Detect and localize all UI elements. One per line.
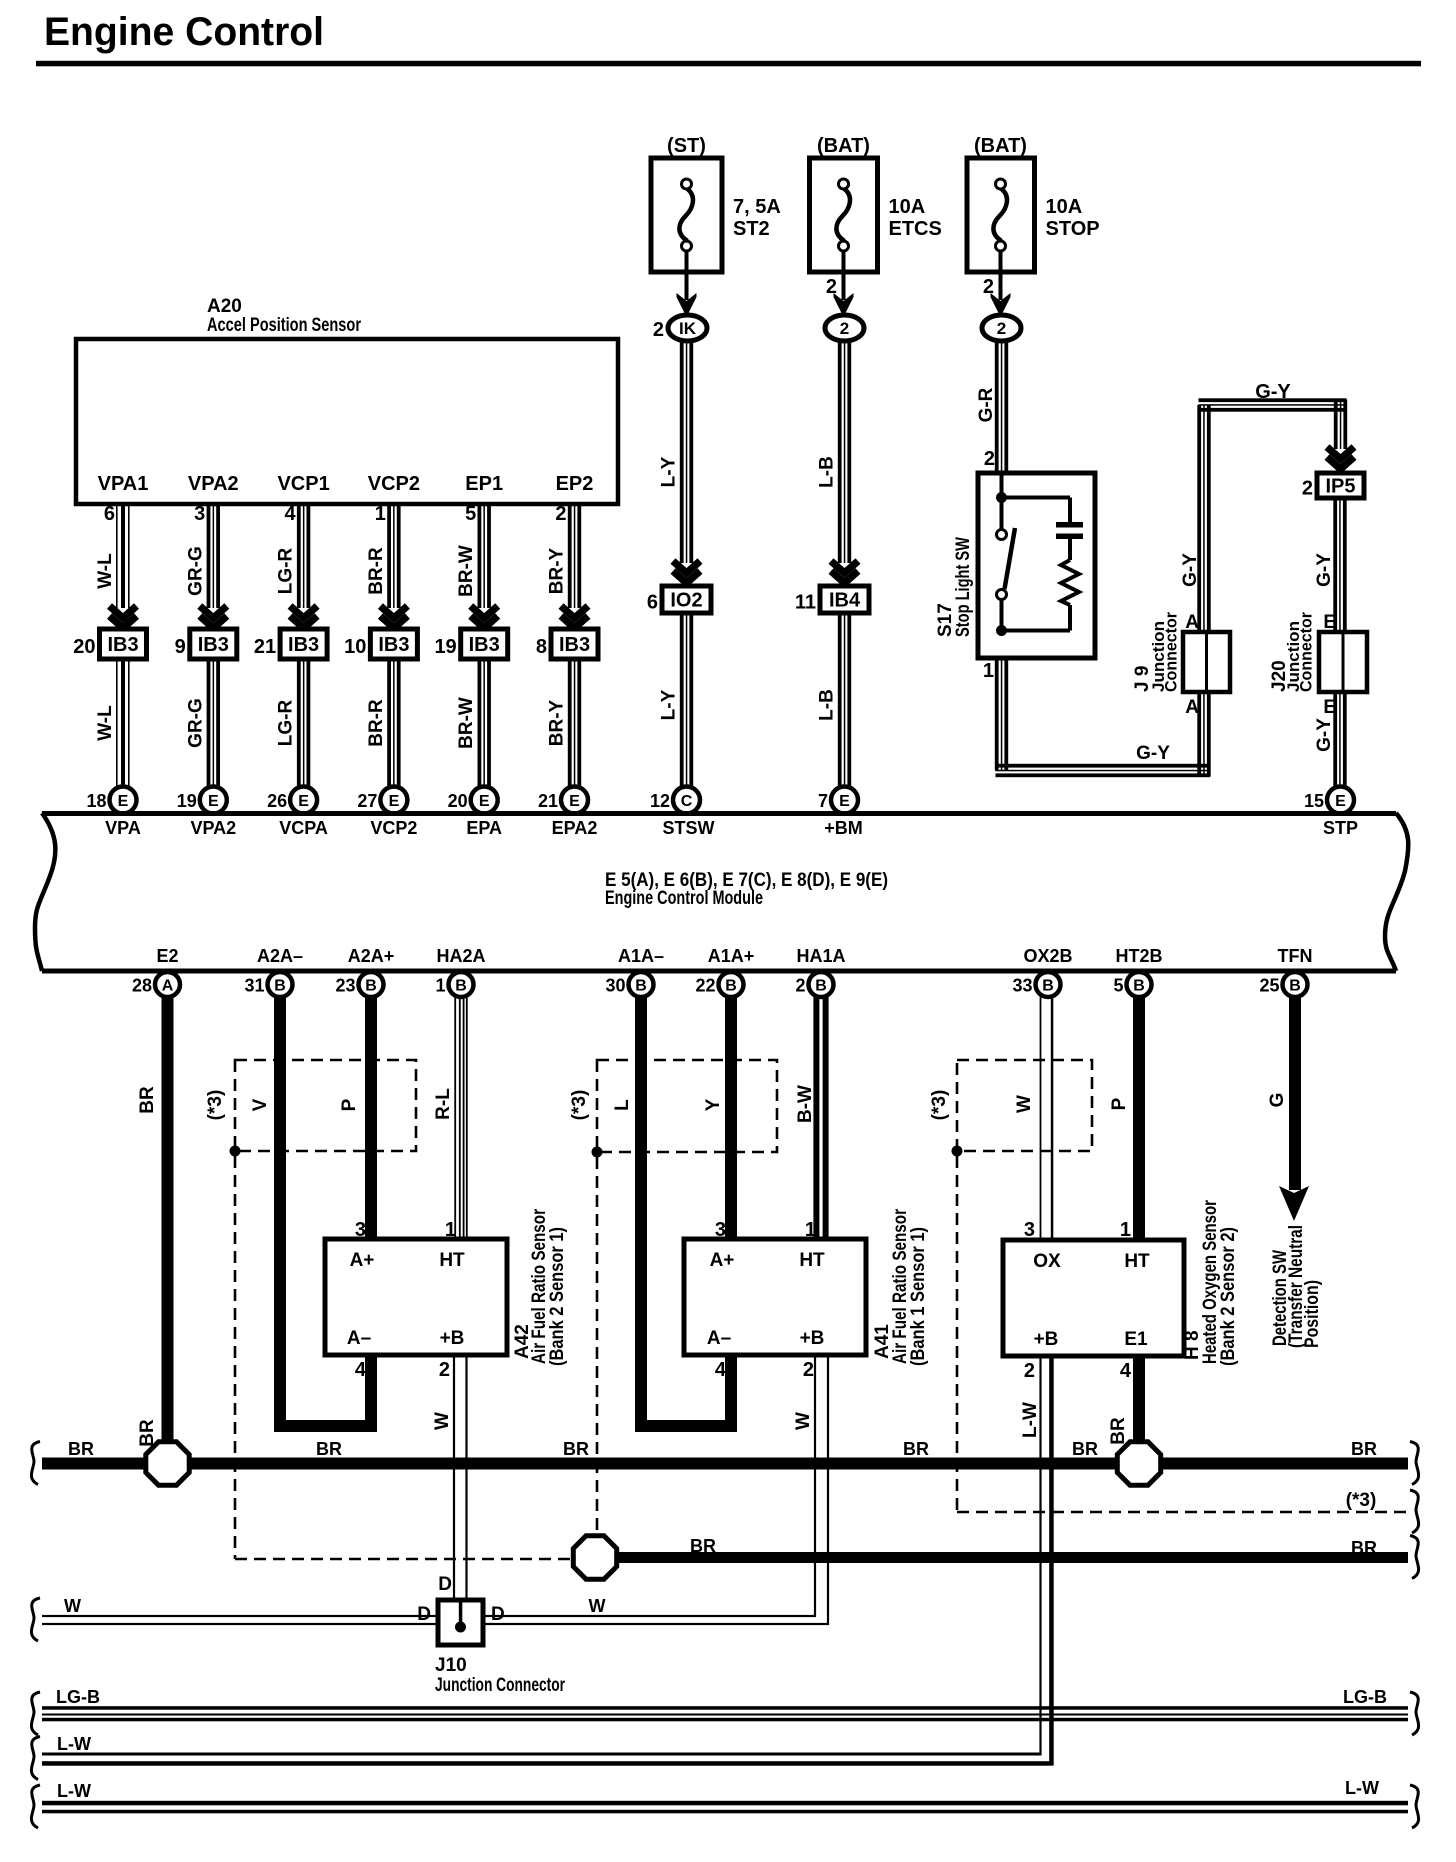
wire G-Y up into J9 bottom (1197, 692, 1201, 777)
bus LG-B (42, 1706, 1408, 1710)
connector oval 2 (ETCS) (825, 315, 864, 341)
svg-text:EPA2: EPA2 (552, 818, 598, 838)
svg-text:D: D (417, 1604, 431, 1625)
svg-text:10A: 10A (889, 196, 926, 218)
svg-text:E: E (479, 793, 490, 810)
svg-text:A–: A– (347, 1328, 371, 1349)
dashed shield box (*3) A42 (235, 1060, 416, 1151)
ECM pin 15 (E) (1327, 787, 1354, 814)
svg-text:HT: HT (1124, 1251, 1150, 1272)
svg-text:BR: BR (316, 1439, 342, 1459)
svg-text:2: 2 (1024, 1360, 1035, 1382)
svg-text:IB3: IB3 (288, 634, 319, 656)
svg-text:Y: Y (703, 1098, 724, 1111)
svg-text:A: A (162, 978, 174, 995)
connector IB3 pin 19 (461, 629, 508, 659)
svg-text:4: 4 (715, 1359, 727, 1381)
svg-text:BR: BR (690, 1536, 716, 1556)
svg-text:11: 11 (795, 592, 816, 614)
svg-text:20: 20 (73, 636, 95, 658)
wire L-Y from IO2 to ECM pin 12 (680, 613, 684, 789)
connector IB3 pin 8 (551, 629, 598, 659)
svg-text:HA1A: HA1A (796, 946, 845, 966)
svg-text:D: D (491, 1604, 505, 1625)
svg-text:W-L: W-L (95, 705, 116, 741)
svg-text:G-Y: G-Y (1314, 553, 1335, 587)
svg-text:BR: BR (137, 1086, 158, 1114)
svg-text:E: E (389, 793, 400, 810)
svg-text:B: B (1042, 978, 1054, 995)
svg-text:L-B: L-B (817, 689, 838, 721)
ECM left wavy edge (35, 813, 55, 971)
ECM pin 23 (B) A2A+ (359, 972, 384, 997)
svg-text:3: 3 (194, 503, 205, 525)
svg-text:BR: BR (903, 1439, 929, 1459)
ECM pin 28 (A) E2 (155, 972, 180, 997)
svg-text:EP2: EP2 (556, 473, 594, 495)
svg-text:HA2A: HA2A (436, 946, 485, 966)
fuse ETCS 10A (810, 158, 878, 272)
ECM pin 7 (E) (831, 787, 858, 814)
svg-text:7, 5A: 7, 5A (733, 196, 781, 218)
S17 internal lead from pin 2 (1000, 475, 1004, 497)
ECM pin 2 (B) HA1A (809, 972, 834, 997)
svg-text:C: C (681, 793, 693, 810)
svg-text:L-W: L-W (57, 1781, 91, 1801)
dashed shield box (*3) H8 (957, 1060, 1092, 1151)
ground bus BR (42, 1458, 1408, 1470)
wire L-W from H8 +B down (1039, 1356, 1041, 1755)
svg-text:BR: BR (1072, 1439, 1098, 1459)
svg-text:10A: 10A (1046, 196, 1083, 218)
wire B-W HA1A to A41 HT (813, 996, 819, 1241)
wire BR-Y from A20 EP2 to IB3 (568, 504, 572, 608)
svg-text:27: 27 (357, 791, 377, 811)
svg-text:(BAT): (BAT) (974, 135, 1027, 157)
ECM bottom edge (42, 969, 1396, 974)
switch lower lead (1000, 599, 1004, 631)
svg-text:W: W (589, 1596, 606, 1616)
svg-text:Engine Control Module: Engine Control Module (605, 888, 763, 909)
svg-text:5: 5 (1113, 976, 1123, 996)
bus L-W upper left squiggle (31, 1737, 40, 1780)
svg-text:31: 31 (244, 976, 264, 996)
svg-text:A2A+: A2A+ (348, 946, 395, 966)
ECM pin 22 (B) A1A+ (719, 972, 744, 997)
bus W left section (42, 1615, 440, 1617)
ECM pin 25 (B) TFN (1283, 972, 1308, 997)
svg-text:A+: A+ (710, 1250, 735, 1271)
dashed bus right squiggle (1410, 1490, 1419, 1533)
svg-text:B-W: B-W (795, 1085, 816, 1123)
svg-text:BR-R: BR-R (366, 699, 387, 747)
wire A1A- to A41 A- (641, 996, 731, 1426)
svg-text:B: B (635, 978, 647, 995)
bus L-W lower (42, 1801, 1408, 1806)
svg-text:E1: E1 (1124, 1329, 1148, 1350)
wire A2A+ to A42 A+ (365, 996, 377, 1241)
connector IB3 pin 9 (190, 629, 237, 659)
svg-text:(BAT): (BAT) (817, 135, 870, 157)
arrow into IB3 (VCP2) (380, 606, 407, 618)
junction connector J9 box (1183, 632, 1230, 692)
wire LG-R from A20 VCP1 to IB3 (297, 504, 301, 608)
svg-text:BR: BR (1351, 1439, 1377, 1459)
svg-text:BR: BR (1108, 1417, 1129, 1445)
svg-text:HT: HT (439, 1250, 465, 1271)
component A42 box (325, 1239, 507, 1355)
svg-text:E: E (1323, 612, 1336, 633)
capacitor in S17 (1056, 522, 1083, 528)
bus LG-B left squiggle (31, 1692, 40, 1735)
svg-text:30: 30 (605, 976, 625, 996)
svg-text:A: A (1185, 697, 1199, 718)
wire G-Y horizontal top run (1199, 398, 1347, 402)
wire BR-W from IB3 to ECM pin 20 (478, 659, 482, 789)
svg-text:21: 21 (254, 636, 276, 658)
svg-text:G-R: G-R (976, 387, 997, 422)
svg-text:23: 23 (335, 976, 355, 996)
wire G-Y from S17 pin 1 down (995, 658, 999, 771)
dashed wire from H8 shield down (956, 1156, 959, 1512)
wire R-L HA2A to A42 HT (454, 996, 456, 1241)
svg-text:L-W: L-W (1345, 1778, 1379, 1798)
svg-text:2: 2 (555, 503, 566, 525)
svg-text:A: A (1185, 612, 1199, 633)
svg-text:BR-Y: BR-Y (547, 699, 568, 746)
wire G-Y from J9 top up (1197, 405, 1201, 632)
svg-text:(*3): (*3) (205, 1090, 226, 1121)
svg-text:IB3: IB3 (198, 634, 229, 656)
svg-text:1: 1 (983, 660, 994, 682)
arrow into IB3 (VPA2) (200, 606, 227, 618)
svg-text:LG-B: LG-B (56, 1687, 100, 1707)
svg-text:12: 12 (650, 791, 670, 811)
ECM pin 30 (B) A1A- (629, 972, 654, 997)
svg-text:Junction Connector: Junction Connector (435, 1675, 565, 1696)
svg-text:5: 5 (465, 503, 476, 525)
svg-text:1: 1 (375, 503, 386, 525)
svg-text:L: L (612, 1099, 633, 1111)
bus BR right squiggle (1410, 1442, 1419, 1485)
wire W-L from IB3 to ECM pin 18 (116, 659, 118, 789)
svg-text:A20: A20 (207, 296, 242, 317)
ECM pin 1 (B) HA2A (449, 972, 474, 997)
svg-text:STSW: STSW (663, 818, 715, 838)
svg-text:Accel Position Sensor: Accel Position Sensor (207, 315, 361, 336)
svg-text:7: 7 (818, 791, 828, 811)
svg-text:HT2B: HT2B (1115, 946, 1162, 966)
svg-text:4: 4 (355, 1359, 367, 1381)
svg-text:B: B (1289, 978, 1301, 995)
wire A1A+ to A41 A+ (725, 996, 737, 1241)
svg-text:2: 2 (439, 1359, 450, 1381)
wire P HT2B to H8 HT (1133, 996, 1145, 1241)
connector IB3 pin 20 (100, 629, 147, 659)
wire A2A- to A42 A- (280, 996, 371, 1426)
svg-text:A2A–: A2A– (257, 946, 303, 966)
svg-text:6: 6 (104, 503, 115, 525)
svg-text:2: 2 (840, 319, 849, 338)
dashed wire from A42 shield down (234, 1156, 237, 1559)
wire BR-R from IB3 to ECM pin 27 (387, 659, 391, 789)
svg-text:W: W (64, 1596, 81, 1616)
svg-text:L-W: L-W (1020, 1402, 1041, 1438)
S17 junction dot top (996, 492, 1007, 503)
svg-text:VCPA: VCPA (279, 818, 328, 838)
svg-text:6: 6 (647, 592, 658, 614)
component A20 Accel Position Sensor box (76, 339, 618, 504)
svg-text:G-Y: G-Y (1255, 381, 1291, 403)
wire G-Y from IP5 to J20 (1333, 498, 1337, 632)
svg-text:A1A–: A1A– (618, 946, 664, 966)
bus BR2 right squiggle (1410, 1536, 1419, 1579)
svg-text:18: 18 (86, 791, 106, 811)
svg-text:28: 28 (132, 976, 152, 996)
svg-text:E: E (569, 793, 580, 810)
resistor to bottom lead (1068, 605, 1072, 631)
switch contact circle lower (997, 590, 1007, 600)
svg-text:R-L: R-L (433, 1088, 454, 1120)
ECM pin 21 (E) (561, 787, 588, 814)
wire G-Y horizontal to J9 (996, 764, 1211, 768)
svg-text:G-Y: G-Y (1180, 553, 1201, 587)
wire W from A42 +B to J10 (453, 1355, 455, 1601)
connector IO2 pin 6 (662, 586, 711, 613)
svg-text:3: 3 (1024, 1219, 1035, 1241)
svg-text:3: 3 (355, 1219, 366, 1241)
junction dot A42 shield (230, 1146, 241, 1157)
dashed shield box (*3) A41 (597, 1060, 777, 1152)
svg-text:1: 1 (805, 1219, 816, 1241)
wire L-B from ETCS fuse to IB4 (838, 340, 842, 563)
connector IB4 pin 11 (820, 586, 869, 613)
svg-text:IB3: IB3 (559, 634, 590, 656)
svg-text:Connector: Connector (1162, 612, 1181, 692)
svg-text:2: 2 (997, 319, 1006, 338)
svg-text:8: 8 (536, 636, 547, 658)
svg-text:TFN: TFN (1278, 946, 1313, 966)
svg-text:LG-R: LG-R (276, 548, 297, 595)
arrow into IP5 (1327, 447, 1354, 459)
svg-text:P: P (1109, 1097, 1130, 1110)
switch fixed contact lead (1000, 498, 1004, 530)
wire GR-G from A20 VPA2 to IB3 (207, 504, 211, 608)
svg-text:E: E (1335, 793, 1346, 810)
ECM pin 33 (B) OX2B (1036, 972, 1061, 997)
svg-text:LG-R: LG-R (276, 700, 297, 747)
svg-text:2: 2 (984, 448, 995, 470)
wire BR from E2 to ground bus (162, 996, 174, 1442)
wire L-Y from IK to IO2 (680, 340, 684, 563)
fuse STOP wire to arrow (999, 251, 1003, 300)
ECM pin 26 (E) (290, 787, 317, 814)
svg-text:25: 25 (1259, 976, 1279, 996)
svg-text:2: 2 (1302, 478, 1313, 500)
wire L-B from IB4 to ECM pin 7 (838, 613, 842, 789)
svg-text:B: B (815, 978, 827, 995)
svg-text:19: 19 (434, 636, 456, 658)
wire W from A41 +B left to J10 (483, 1615, 816, 1617)
bus L-W upper (42, 1753, 1042, 1756)
svg-text:2: 2 (803, 1359, 814, 1381)
ECM pin 12 (C) (673, 787, 700, 814)
svg-text:VPA1: VPA1 (98, 473, 149, 495)
bus L-W lower right squiggle (1410, 1785, 1419, 1828)
svg-text:VCP1: VCP1 (277, 473, 329, 495)
svg-text:IK: IK (679, 319, 697, 338)
svg-text:(*3): (*3) (569, 1090, 590, 1121)
svg-text:GR-G: GR-G (185, 698, 206, 748)
svg-text:BR-Y: BR-Y (547, 547, 568, 594)
switch S17 box (978, 473, 1095, 658)
svg-text:VPA2: VPA2 (188, 473, 239, 495)
svg-text:IB4: IB4 (829, 590, 861, 612)
junction octagon E2/bus (146, 1442, 189, 1485)
svg-text:IP5: IP5 (1325, 476, 1355, 498)
svg-text:VPA: VPA (105, 818, 141, 838)
svg-text:G: G (1267, 1093, 1288, 1108)
junction octagon H8-E1/bus (1117, 1442, 1160, 1485)
arrow into connector 2 (STOP) (991, 293, 1011, 317)
ECM pin 19 (E) (200, 787, 227, 814)
svg-text:B: B (1133, 978, 1145, 995)
arrow into IB3 (EP2) (561, 606, 588, 618)
title underline (36, 61, 1421, 67)
svg-text:GR-G: GR-G (185, 546, 206, 596)
svg-text:L-Y: L-Y (659, 456, 680, 487)
wire BR-Y from IB3 to ECM pin 21 (568, 659, 572, 789)
svg-text:IB3: IB3 (469, 634, 500, 656)
capacitor to resistor lead (1068, 539, 1072, 560)
svg-text:19: 19 (177, 791, 197, 811)
svg-text:BR: BR (563, 1439, 589, 1459)
connector oval IK pin 2 (668, 315, 707, 341)
svg-text:Position): Position) (1302, 1280, 1323, 1348)
svg-text:A+: A+ (350, 1250, 375, 1271)
svg-text:E2: E2 (156, 946, 178, 966)
wire G from TFN down (1289, 996, 1301, 1190)
svg-text:W-L: W-L (95, 553, 116, 589)
svg-text:LG-B: LG-B (1343, 1687, 1387, 1707)
svg-text:(Bank 2 Sensor 2): (Bank 2 Sensor 2) (1218, 1227, 1239, 1366)
wire W from A41 +B down (814, 1355, 816, 1617)
svg-text:IB3: IB3 (107, 634, 138, 656)
svg-text:+B: +B (1034, 1329, 1059, 1350)
svg-text:L-B: L-B (817, 456, 838, 488)
wire BR-R from A20 VCP2 to IB3 (387, 504, 391, 608)
svg-text:B: B (455, 978, 467, 995)
svg-text:(Bank 2 Sensor 1): (Bank 2 Sensor 1) (547, 1227, 568, 1366)
svg-text:1: 1 (445, 1219, 456, 1241)
svg-text:+B: +B (800, 1328, 825, 1349)
fuse ST2 7.5A (651, 158, 722, 272)
svg-text:E: E (839, 793, 850, 810)
wire LG-R from IB3 to ECM pin 26 (297, 659, 301, 789)
junction connector J20 box (1319, 632, 1367, 692)
svg-text:2: 2 (795, 976, 805, 996)
svg-text:VCP2: VCP2 (370, 818, 417, 838)
dashed wire A42 shield horizontal to octagon (235, 1558, 573, 1561)
arrow into IB3 (VCP1) (290, 606, 317, 618)
wire GR-G from IB3 to ECM pin 19 (207, 659, 211, 789)
svg-text:(*3): (*3) (1346, 1490, 1377, 1511)
switch lever (1005, 528, 1016, 589)
svg-text:G-Y: G-Y (1136, 743, 1170, 764)
S17 bottom branch (1002, 629, 1071, 633)
svg-text:(*3): (*3) (929, 1090, 950, 1121)
svg-text:E: E (118, 793, 129, 810)
arrow into IB3 (EP1) (471, 606, 498, 618)
svg-text:1: 1 (435, 976, 445, 996)
svg-text:33: 33 (1012, 976, 1032, 996)
svg-text:B: B (274, 978, 286, 995)
svg-text:BR: BR (68, 1439, 94, 1459)
svg-text:VCP2: VCP2 (368, 473, 420, 495)
bus BR left squiggle (31, 1442, 40, 1485)
arrow into IB3 (VPA1) (110, 606, 137, 618)
svg-text:J10: J10 (435, 1655, 467, 1676)
bus BR 2 (618, 1552, 1408, 1563)
ECM top edge (42, 811, 1396, 816)
fuse ST2 wire to arrow (685, 251, 689, 300)
ECM pin 18 (E) (110, 787, 137, 814)
fuse STOP 10A (967, 158, 1035, 272)
svg-text:D: D (438, 1574, 452, 1595)
wire BR-W from A20 EP1 to IB3 (478, 504, 482, 608)
S17 branch to RC leg (1002, 496, 1071, 500)
svg-text:B: B (725, 978, 737, 995)
ECM pin 27 (E) (380, 787, 407, 814)
svg-text:OX2B: OX2B (1023, 946, 1072, 966)
svg-text:W: W (793, 1412, 814, 1430)
svg-text:L-W: L-W (57, 1734, 91, 1754)
arrow into IB4 (831, 561, 858, 573)
ECM pin 31 (B) A2A- (268, 972, 293, 997)
fuse ETCS wire to arrow (842, 251, 846, 300)
ECM pin 5 (B) HT2B (1127, 972, 1152, 997)
dashed wire H8 shield horizontal (*3) (957, 1511, 1408, 1514)
svg-text:W: W (432, 1412, 453, 1430)
arrow into IO2 (673, 561, 700, 573)
svg-text:EPA: EPA (466, 818, 502, 838)
switch contact circle upper (997, 530, 1007, 540)
junction dot H8 shield (952, 1146, 963, 1157)
bus LG-B right squiggle (1410, 1692, 1419, 1735)
connector IP5 pin 2 (1317, 473, 1364, 498)
dashed wire from A41 shield down to octagon (596, 1157, 599, 1534)
arrow into connector IK (677, 293, 697, 317)
svg-text:4: 4 (284, 503, 296, 525)
svg-text:3: 3 (715, 1219, 726, 1241)
svg-text:9: 9 (175, 636, 186, 658)
svg-text:22: 22 (695, 976, 715, 996)
svg-text:G-Y: G-Y (1314, 718, 1335, 752)
svg-text:A–: A– (707, 1328, 731, 1349)
svg-text:W: W (1014, 1095, 1035, 1113)
component H8 box (1003, 1240, 1184, 1356)
svg-text:V: V (250, 1098, 271, 1111)
svg-text:B: B (365, 978, 377, 995)
resistor in S17 (1061, 560, 1079, 605)
svg-text:Connector: Connector (1297, 612, 1316, 692)
arrow into connector 2 (ETCS) (834, 293, 854, 317)
ECM right wavy edge (1385, 813, 1408, 971)
svg-text:+BM: +BM (824, 818, 863, 838)
bus W left squiggle (31, 1598, 40, 1641)
svg-text:2: 2 (653, 319, 664, 341)
wire W-L from A20 VPA1 to IB3 (116, 504, 118, 608)
